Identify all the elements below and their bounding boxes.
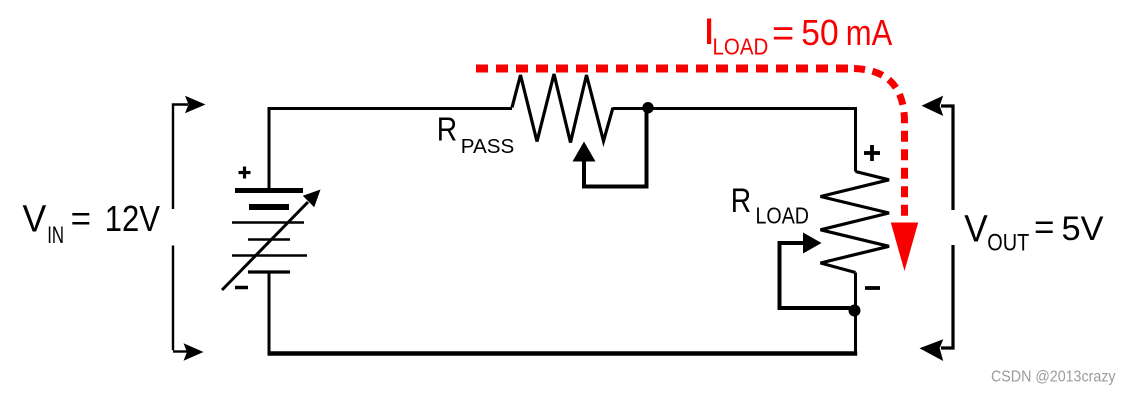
svg-text:=: = — [71, 200, 91, 239]
svg-text:5V: 5V — [1062, 210, 1104, 248]
svg-text:V: V — [964, 209, 988, 251]
svg-text:LOAD: LOAD — [713, 34, 769, 60]
svg-text:IN: IN — [47, 222, 64, 249]
svg-text:V: V — [23, 198, 47, 240]
svg-text:12V: 12V — [105, 198, 160, 239]
svg-text:CSDN @2013crazy: CSDN @2013crazy — [991, 369, 1116, 386]
svg-text:=: = — [772, 13, 794, 55]
svg-text:LOAD: LOAD — [756, 202, 810, 228]
svg-text:mA: mA — [846, 12, 893, 53]
svg-text:PASS: PASS — [461, 135, 515, 158]
svg-text:=: = — [1034, 208, 1054, 247]
svg-text:OUT: OUT — [987, 230, 1029, 257]
svg-text:50: 50 — [801, 12, 838, 53]
svg-text:R: R — [731, 182, 751, 220]
svg-text:R: R — [437, 112, 457, 149]
